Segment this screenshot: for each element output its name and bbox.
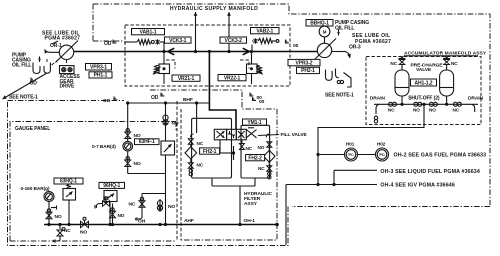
svg-text:VR21-1: VR21-1 xyxy=(178,76,195,82)
svg-text:NC: NC xyxy=(197,163,204,168)
svg-text:0-7 BAR(d): 0-7 BAR(d) xyxy=(92,144,116,150)
svg-text:PH1-1: PH1-1 xyxy=(94,73,108,79)
svg-text:DRIVE: DRIVE xyxy=(60,84,76,90)
svg-text:PGMA #36627: PGMA #36627 xyxy=(45,36,81,42)
svg-text:AH1-1,2: AH1-1,2 xyxy=(415,81,433,87)
svg-text:FILL VALVE: FILL VALVE xyxy=(281,132,308,138)
svg-text:SHUT-OFF (2): SHUT-OFF (2) xyxy=(408,96,440,102)
svg-text:VALVE: VALVE xyxy=(416,67,432,73)
svg-text:DRAIN: DRAIN xyxy=(370,96,386,102)
svg-text:VCK3-2: VCK3-2 xyxy=(225,38,243,44)
svg-text:OIL FILL: OIL FILL xyxy=(12,63,31,69)
svg-text:63HQ-1: 63HQ-1 xyxy=(60,179,77,185)
svg-text:DRAIN: DRAIN xyxy=(468,96,484,102)
svg-text:NC: NC xyxy=(388,108,395,113)
svg-text:PH2-1: PH2-1 xyxy=(301,68,315,74)
svg-text:BHF: BHF xyxy=(183,97,193,103)
svg-text:0-160 BAR(g): 0-160 BAR(g) xyxy=(21,186,50,192)
svg-text:FH2-2: FH2-2 xyxy=(248,155,262,161)
svg-text:VPR3-1: VPR3-1 xyxy=(90,65,107,71)
svg-text:FILTER: FILTER xyxy=(244,196,261,202)
svg-text:M: M xyxy=(323,30,327,35)
svg-text:OH-2 SEE GAS FUEL PGMA #36633: OH-2 SEE GAS FUEL PGMA #36633 xyxy=(394,153,487,159)
svg-text:63HF-1: 63HF-1 xyxy=(139,139,155,145)
svg-text:OD: OD xyxy=(151,95,159,101)
svg-text:96HQ-1: 96HQ-1 xyxy=(103,183,120,189)
svg-text:NO: NO xyxy=(118,213,125,218)
svg-text:NO: NO xyxy=(258,145,265,150)
svg-text:OIL FILL: OIL FILL xyxy=(335,26,354,32)
svg-text:VAB1-1: VAB1-1 xyxy=(140,29,157,35)
svg-text:VPR3-2: VPR3-2 xyxy=(296,60,313,66)
svg-text:NC: NC xyxy=(453,108,460,113)
svg-text:OR-3: OR-3 xyxy=(349,45,361,51)
svg-text:OD: OD xyxy=(103,98,111,104)
svg-text:NC: NC xyxy=(258,166,265,171)
svg-text:PC: PC xyxy=(348,152,354,157)
svg-text:VCK3-1: VCK3-1 xyxy=(169,38,187,44)
svg-text:PC: PC xyxy=(379,152,385,157)
svg-text:H01: H01 xyxy=(346,142,355,147)
svg-text:VR22-1: VR22-1 xyxy=(224,75,241,81)
svg-text:NC: NC xyxy=(129,202,136,208)
svg-text:AHF: AHF xyxy=(184,218,194,224)
svg-text:SEE NOTE-1: SEE NOTE-1 xyxy=(325,93,354,99)
svg-text:VAB2-1: VAB2-1 xyxy=(256,28,273,34)
svg-text:NC: NC xyxy=(451,61,458,66)
svg-text:NO: NO xyxy=(55,214,62,220)
svg-text:OH-3 SEE LIQUID FUEL PGMA #366: OH-3 SEE LIQUID FUEL PGMA #36634 xyxy=(380,169,480,175)
svg-text:NO: NO xyxy=(134,133,141,139)
svg-text:NO: NO xyxy=(429,108,436,113)
svg-text:NC: NC xyxy=(390,61,397,66)
svg-text:ASSY: ASSY xyxy=(244,201,258,207)
svg-text:BBHQ-1: BBHQ-1 xyxy=(310,21,329,27)
svg-text:NO: NO xyxy=(80,230,87,236)
svg-text:NO: NO xyxy=(172,121,179,127)
svg-text:OH-4 SEE IGV PGMA #36646: OH-4 SEE IGV PGMA #36646 xyxy=(380,183,455,189)
svg-text:SEE NOTE-1: SEE NOTE-1 xyxy=(9,95,38,101)
svg-text:NC: NC xyxy=(103,196,110,201)
svg-text:NC: NC xyxy=(64,228,71,233)
svg-text:NO: NO xyxy=(413,108,420,113)
svg-text:OH-1: OH-1 xyxy=(244,218,256,224)
svg-text:HYDRAULIC: HYDRAULIC xyxy=(244,191,272,197)
svg-text:OR-1: OR-1 xyxy=(50,43,62,49)
svg-text:NC: NC xyxy=(246,146,253,151)
svg-text:NO: NO xyxy=(168,204,175,210)
svg-text:NC: NC xyxy=(197,141,204,146)
svg-text:OH: OH xyxy=(138,219,146,225)
svg-text:FH2-1: FH2-1 xyxy=(203,149,217,155)
svg-text:NO: NO xyxy=(134,161,141,167)
svg-text:GAUGE PANEL: GAUGE PANEL xyxy=(15,126,50,132)
svg-text:00: 00 xyxy=(293,43,299,49)
svg-text:00: 00 xyxy=(259,99,265,105)
svg-text:OD: OD xyxy=(104,41,112,47)
svg-text:PGMA #36627: PGMA #36627 xyxy=(355,39,391,45)
svg-text:H02: H02 xyxy=(377,142,386,147)
svg-text:HYDRAULIC SUPPLY MANIFOLD: HYDRAULIC SUPPLY MANIFOLD xyxy=(170,6,258,12)
